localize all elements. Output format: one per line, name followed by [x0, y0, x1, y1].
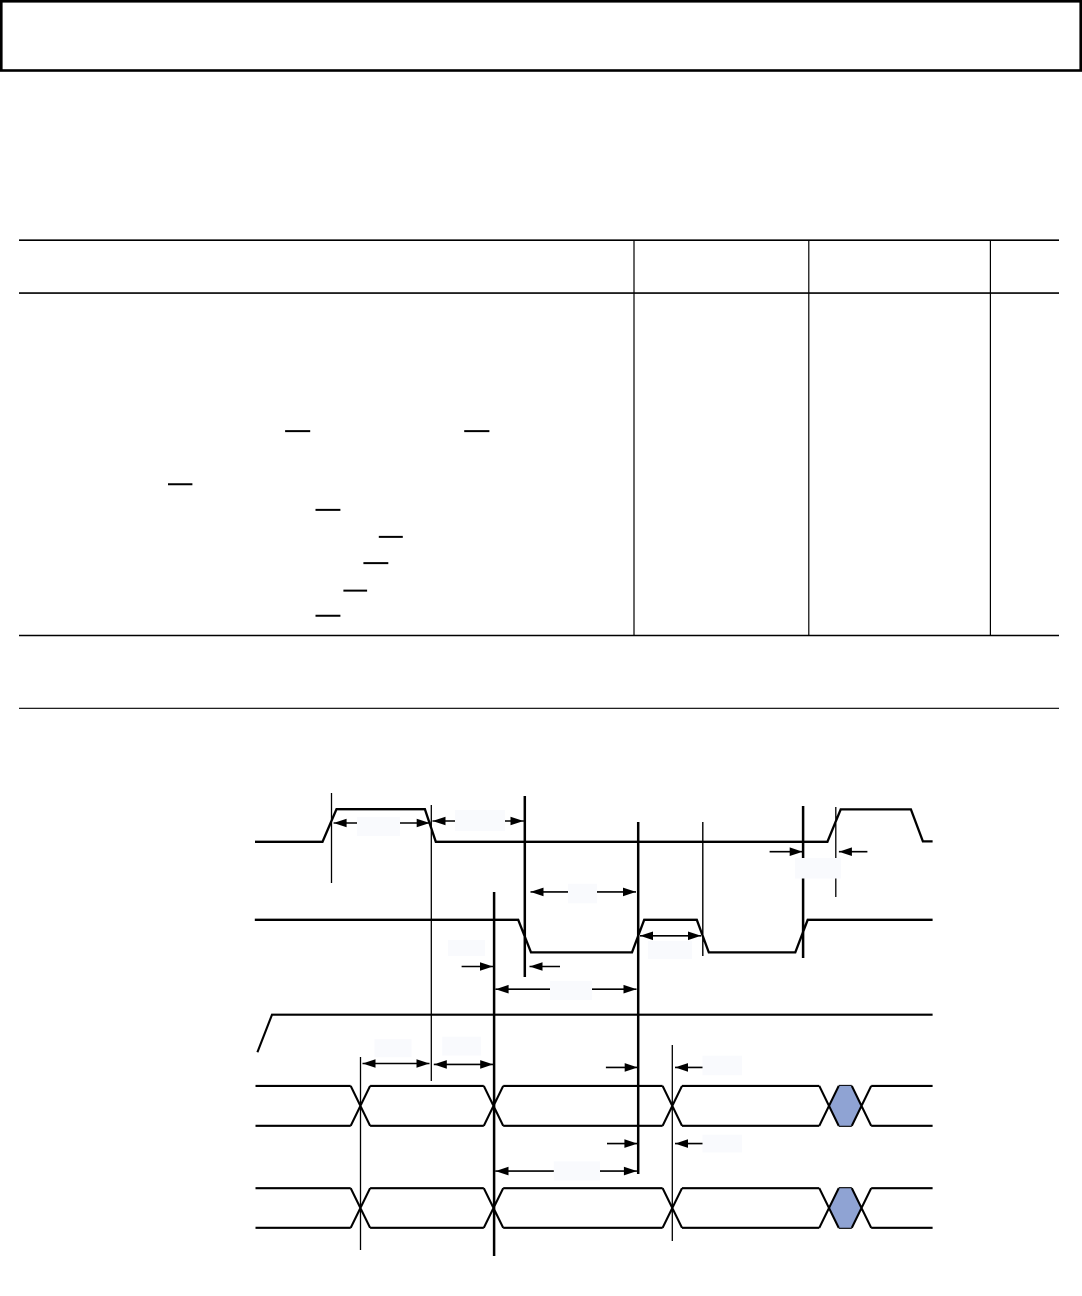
arrow A9 t13	[434, 1060, 493, 1069]
bus row 5 crossovers	[351, 1188, 872, 1228]
section rule	[19, 707, 1059, 709]
arrow A3 left part	[770, 847, 803, 856]
vertical marker V8	[835, 807, 837, 897]
arrow A10 left part	[606, 1063, 638, 1072]
arrow A11 left part	[607, 1139, 637, 1148]
arrow A1 t1	[334, 819, 430, 828]
arrow A3 right part	[839, 847, 868, 856]
vertical marker V1	[331, 793, 333, 883]
table column line 2	[808, 240, 810, 635]
faint label boxes	[357, 810, 841, 1181]
arrow A6 left part	[462, 962, 493, 971]
arrow A7 t9	[496, 985, 637, 994]
bus row 5	[256, 1188, 933, 1228]
vertical marker V7	[802, 806, 805, 958]
arrow A10 right part	[675, 1063, 703, 1072]
table header rule	[19, 292, 1059, 294]
overline mark 1	[285, 430, 310, 432]
overline mark 8	[316, 615, 341, 617]
overline mark 5	[379, 536, 403, 538]
bus row 4 crossovers	[351, 1086, 872, 1126]
vertical marker V5	[637, 822, 640, 1174]
arrow A4 t5	[531, 888, 637, 897]
table column line 3	[989, 240, 991, 635]
table column line 1	[633, 240, 635, 635]
overline mark 2	[464, 430, 489, 432]
arrow A12 t11	[496, 1167, 637, 1176]
arrow A8 t12	[363, 1059, 430, 1068]
vertical marker V3	[493, 892, 496, 1256]
bus row 4 hexagon fill	[829, 1086, 862, 1126]
arrow A5 t7	[640, 932, 701, 941]
overline mark 7	[343, 590, 367, 592]
arrow A11 right part	[675, 1139, 703, 1148]
table top rule	[19, 239, 1059, 241]
vertical marker V9	[360, 1057, 362, 1250]
waveform row 2 (strobe)	[255, 920, 933, 953]
overline mark 6	[363, 562, 388, 564]
waveform row 3 (address latch)	[257, 1015, 932, 1053]
arrow A6 right part	[530, 962, 561, 971]
vertical marker V6	[702, 822, 704, 956]
bus row 4	[256, 1086, 933, 1126]
waveform row 1 (clock)	[255, 809, 933, 842]
arrow A2 t2	[433, 817, 524, 826]
table bottom rule	[19, 635, 1059, 637]
header box	[1, 1, 1080, 70]
vertical marker V2	[430, 805, 432, 1081]
vertical marker V4	[524, 796, 527, 977]
overline mark 3	[168, 483, 192, 485]
bus row 5 hexagon fill	[829, 1188, 862, 1228]
overline mark 4	[316, 509, 341, 511]
vertical marker V10	[671, 1045, 673, 1241]
